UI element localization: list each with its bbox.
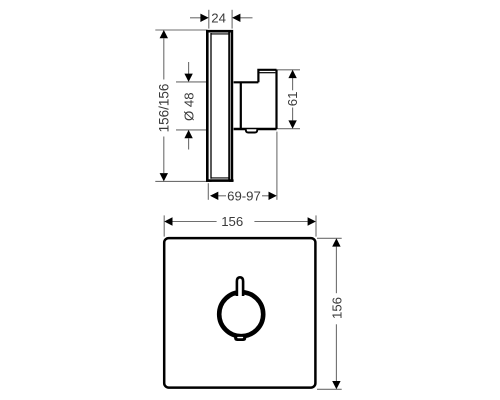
wire: extension line bottom for dim 156 right bbox=[317, 388, 342, 390]
dim 69.97 arrow right bbox=[269, 192, 277, 200]
svg-text:61: 61 bbox=[285, 92, 300, 107]
wire: extension line right for dim 69.97 bbox=[276, 132, 278, 200]
wire: extension line right for dim 24 bbox=[231, 10, 233, 29]
plate side view inner chamfer top bbox=[211, 33, 229, 35]
wire: extension line left for dim 24 bbox=[208, 10, 210, 29]
dim 24 arrow left bbox=[200, 14, 208, 22]
wire: extension line top for dim Ø48 bbox=[176, 81, 207, 83]
dim 24 line right segment bbox=[239, 17, 252, 19]
wire: extension line left for dim 156 top bbox=[163, 215, 165, 236]
plate side view inner face line left bbox=[210, 33, 212, 179]
svg-text:156: 156 bbox=[330, 297, 345, 319]
dim 156/156 arrow up bbox=[160, 30, 168, 38]
dim 69.97 line left segment bbox=[218, 195, 226, 197]
dim 156 right line lower segment bbox=[335, 324, 337, 381]
dim 156/156 line upper segment bbox=[163, 38, 165, 79]
plate side view outer contour bbox=[207, 31, 232, 180]
wire: extension line bottom for dim Ø48 bbox=[176, 129, 207, 131]
wire: extension line bottom of plate (left, to 156/156 dim) bbox=[155, 180, 211, 182]
dim 69.97 arrow left bbox=[210, 192, 218, 200]
knob bottom button slit bbox=[237, 337, 243, 338]
knob side view: select button outline bbox=[258, 70, 276, 83]
knob side view: select button inner line bbox=[260, 72, 276, 74]
svg-text:Ø 48: Ø 48 bbox=[181, 92, 196, 121]
dim 61 arrow up bbox=[288, 70, 296, 78]
wire: extension line right for dim 156 top bbox=[315, 215, 317, 236]
knob top index stub bbox=[237, 277, 243, 296]
dim Ø48 line above bbox=[188, 62, 190, 74]
wire: extension line top for dim 156 right bbox=[317, 237, 342, 239]
svg-text:156/156: 156/156 bbox=[156, 84, 171, 133]
front plate square bbox=[164, 238, 315, 388]
svg-text:24: 24 bbox=[211, 10, 226, 25]
dim 156 right arrow up bbox=[332, 238, 340, 246]
plate bottom-right step bbox=[229, 179, 234, 181]
dim 156 top line left segment bbox=[173, 221, 217, 223]
knob side view: face line (collar) bbox=[240, 82, 242, 129]
knob side view: bottom edge bbox=[234, 128, 277, 130]
dim 61 line upper segment bbox=[292, 78, 294, 90]
dim Ø48 arrow down (above top ext line) bbox=[184, 74, 192, 82]
knob side view: top edge of sleeve bbox=[234, 81, 259, 83]
svg-text:156: 156 bbox=[221, 214, 243, 229]
dim 156 right line upper segment bbox=[335, 247, 337, 294]
knob ring bbox=[219, 292, 263, 336]
dim Ø48 line below bbox=[188, 138, 190, 150]
dim 61 line lower segment bbox=[292, 108, 294, 121]
dim 24 line left segment bbox=[190, 17, 202, 19]
dim 156/156 line lower segment bbox=[163, 137, 165, 174]
wire: extension line top of plate (left, to 156/156 dim) bbox=[155, 29, 207, 31]
knob side view: bottom tab bbox=[246, 129, 257, 132]
wire: extension line bottom for dim 61 bbox=[278, 128, 301, 130]
wire: extension line left for dim 69.97 bbox=[207, 183, 209, 200]
dim 156 top arrow left bbox=[164, 217, 172, 225]
dim 156 top arrow right bbox=[308, 217, 316, 225]
wire: extension line top for dim 61 bbox=[277, 69, 301, 71]
dim 69.97 line right segment bbox=[262, 195, 269, 197]
svg-text:69-97: 69-97 bbox=[227, 188, 261, 203]
dim 61 arrow down bbox=[288, 120, 296, 128]
knob side view: front edge bbox=[275, 70, 277, 129]
dim 156 top line right segment bbox=[254, 221, 307, 223]
plate side view inner chamfer bottom bbox=[211, 177, 229, 179]
dim 24 arrow right bbox=[232, 14, 240, 22]
dim Ø48 arrow up (below bottom ext line) bbox=[184, 130, 192, 138]
plate side view back double line bbox=[228, 31, 230, 180]
dim 156/156 arrow down bbox=[160, 173, 168, 181]
dim 156 right arrow down bbox=[332, 381, 340, 389]
knob bottom button bbox=[234, 335, 246, 341]
